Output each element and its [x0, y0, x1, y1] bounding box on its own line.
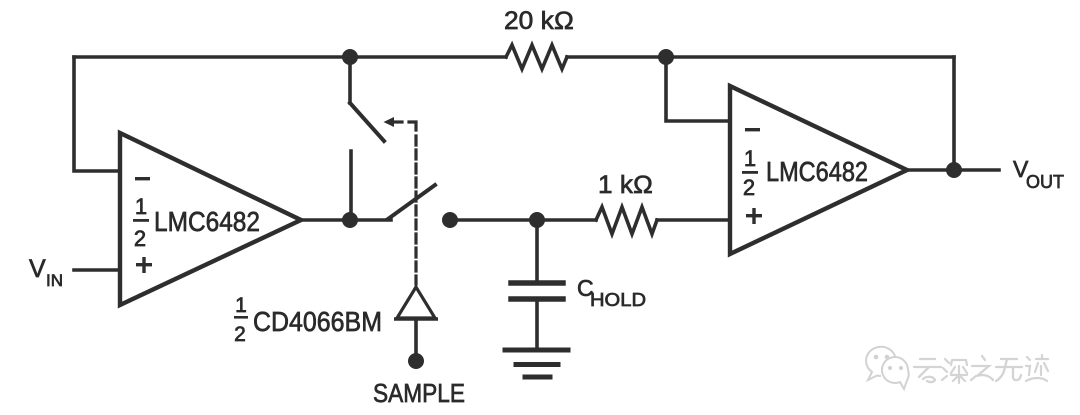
wire switch S1b left segment [350, 218, 391, 222]
node junction Vout [946, 162, 962, 178]
switch control arrowhead [384, 117, 395, 127]
watermark logo eyes [874, 355, 903, 370]
node junction hold cap [529, 212, 545, 228]
switch control dashed vertical [414, 136, 417, 284]
watermark text zhi [971, 356, 993, 380]
wire A1 output [301, 218, 352, 222]
wire A2 output [907, 168, 999, 172]
svg-text:2: 2 [134, 226, 146, 251]
svg-text:20 kΩ: 20 kΩ [504, 7, 574, 35]
switch S1b blade [388, 185, 435, 219]
svg-text:1: 1 [135, 194, 147, 219]
switch S1a top post [348, 57, 352, 103]
ground [505, 350, 568, 377]
buffer triangle SAMPLE driver [394, 287, 438, 319]
op-amp U2 plus label [746, 208, 762, 224]
watermark logo bubble small [882, 357, 909, 389]
switch S1a lower contact stub [349, 151, 353, 220]
svg-text:1: 1 [744, 146, 756, 171]
op-amp U1 minus label [135, 177, 150, 180]
watermark logo bubble big [866, 347, 896, 380]
wire A2 inverting input feed [666, 57, 730, 121]
wire capacitor C1 bottom lead [535, 301, 539, 348]
svg-text:LMC6482: LMC6482 [154, 206, 260, 237]
label Vin [29, 255, 63, 290]
svg-text:CD4066BM: CD4066BM [253, 306, 382, 337]
resistor R1 20k zigzag [506, 45, 567, 69]
label C1 value C HOLD [577, 275, 646, 310]
op-amp U2 minus label [745, 128, 760, 131]
switch control dashed arrow shaft [395, 120, 402, 123]
op-amp U1 plus label [136, 257, 152, 273]
switch S1a blade [350, 103, 384, 141]
watermark text yun [914, 359, 941, 382]
wire top feedback left segment [74, 55, 506, 59]
op-amp U2 half fraction [742, 146, 758, 200]
wire R2 to A2 plus input [657, 218, 730, 222]
svg-text:HOLD: HOLD [590, 290, 646, 310]
wire left vertical to inverting input [74, 57, 120, 171]
node SAMPLE terminal dot [408, 353, 424, 369]
wire switch S1b right to hold node [450, 218, 596, 222]
svg-text:V: V [29, 255, 46, 283]
resistor R2 1k zigzag [596, 207, 657, 234]
op-amp U1 LMC6482 triangle [120, 133, 301, 305]
watermark text ji [1026, 355, 1048, 381]
svg-text:OUT: OUT [1026, 172, 1064, 192]
wire capacitor C1 top lead [535, 220, 539, 280]
wire Vin input [74, 268, 120, 272]
svg-text:LMC6482: LMC6482 [766, 156, 868, 187]
watermark text shen [942, 359, 967, 383]
wire SAMPLE lead [414, 319, 418, 357]
node junction top left [342, 49, 358, 65]
label Vout [1013, 156, 1064, 192]
svg-text:2: 2 [743, 175, 755, 200]
svg-text:1: 1 [235, 294, 247, 317]
node junction A1 output [342, 212, 358, 228]
capacitor C1 plates [511, 283, 563, 299]
watermark text wu [996, 359, 1022, 381]
wire output feedback vertical [952, 57, 956, 170]
node junction top right [658, 49, 674, 65]
op-amp U2 LMC6482 triangle [730, 86, 907, 254]
wire top feedback right segment [567, 55, 954, 59]
node junction switch right contact [442, 212, 458, 228]
svg-text:SAMPLE: SAMPLE [373, 378, 465, 408]
svg-text:IN: IN [46, 271, 63, 290]
svg-text:1 kΩ: 1 kΩ [598, 171, 653, 199]
op-amp U1 half fraction [133, 194, 149, 251]
label switch S1 half CD4066BM [234, 294, 382, 346]
switch control corner dash [409, 122, 416, 130]
svg-text:2: 2 [234, 323, 246, 346]
